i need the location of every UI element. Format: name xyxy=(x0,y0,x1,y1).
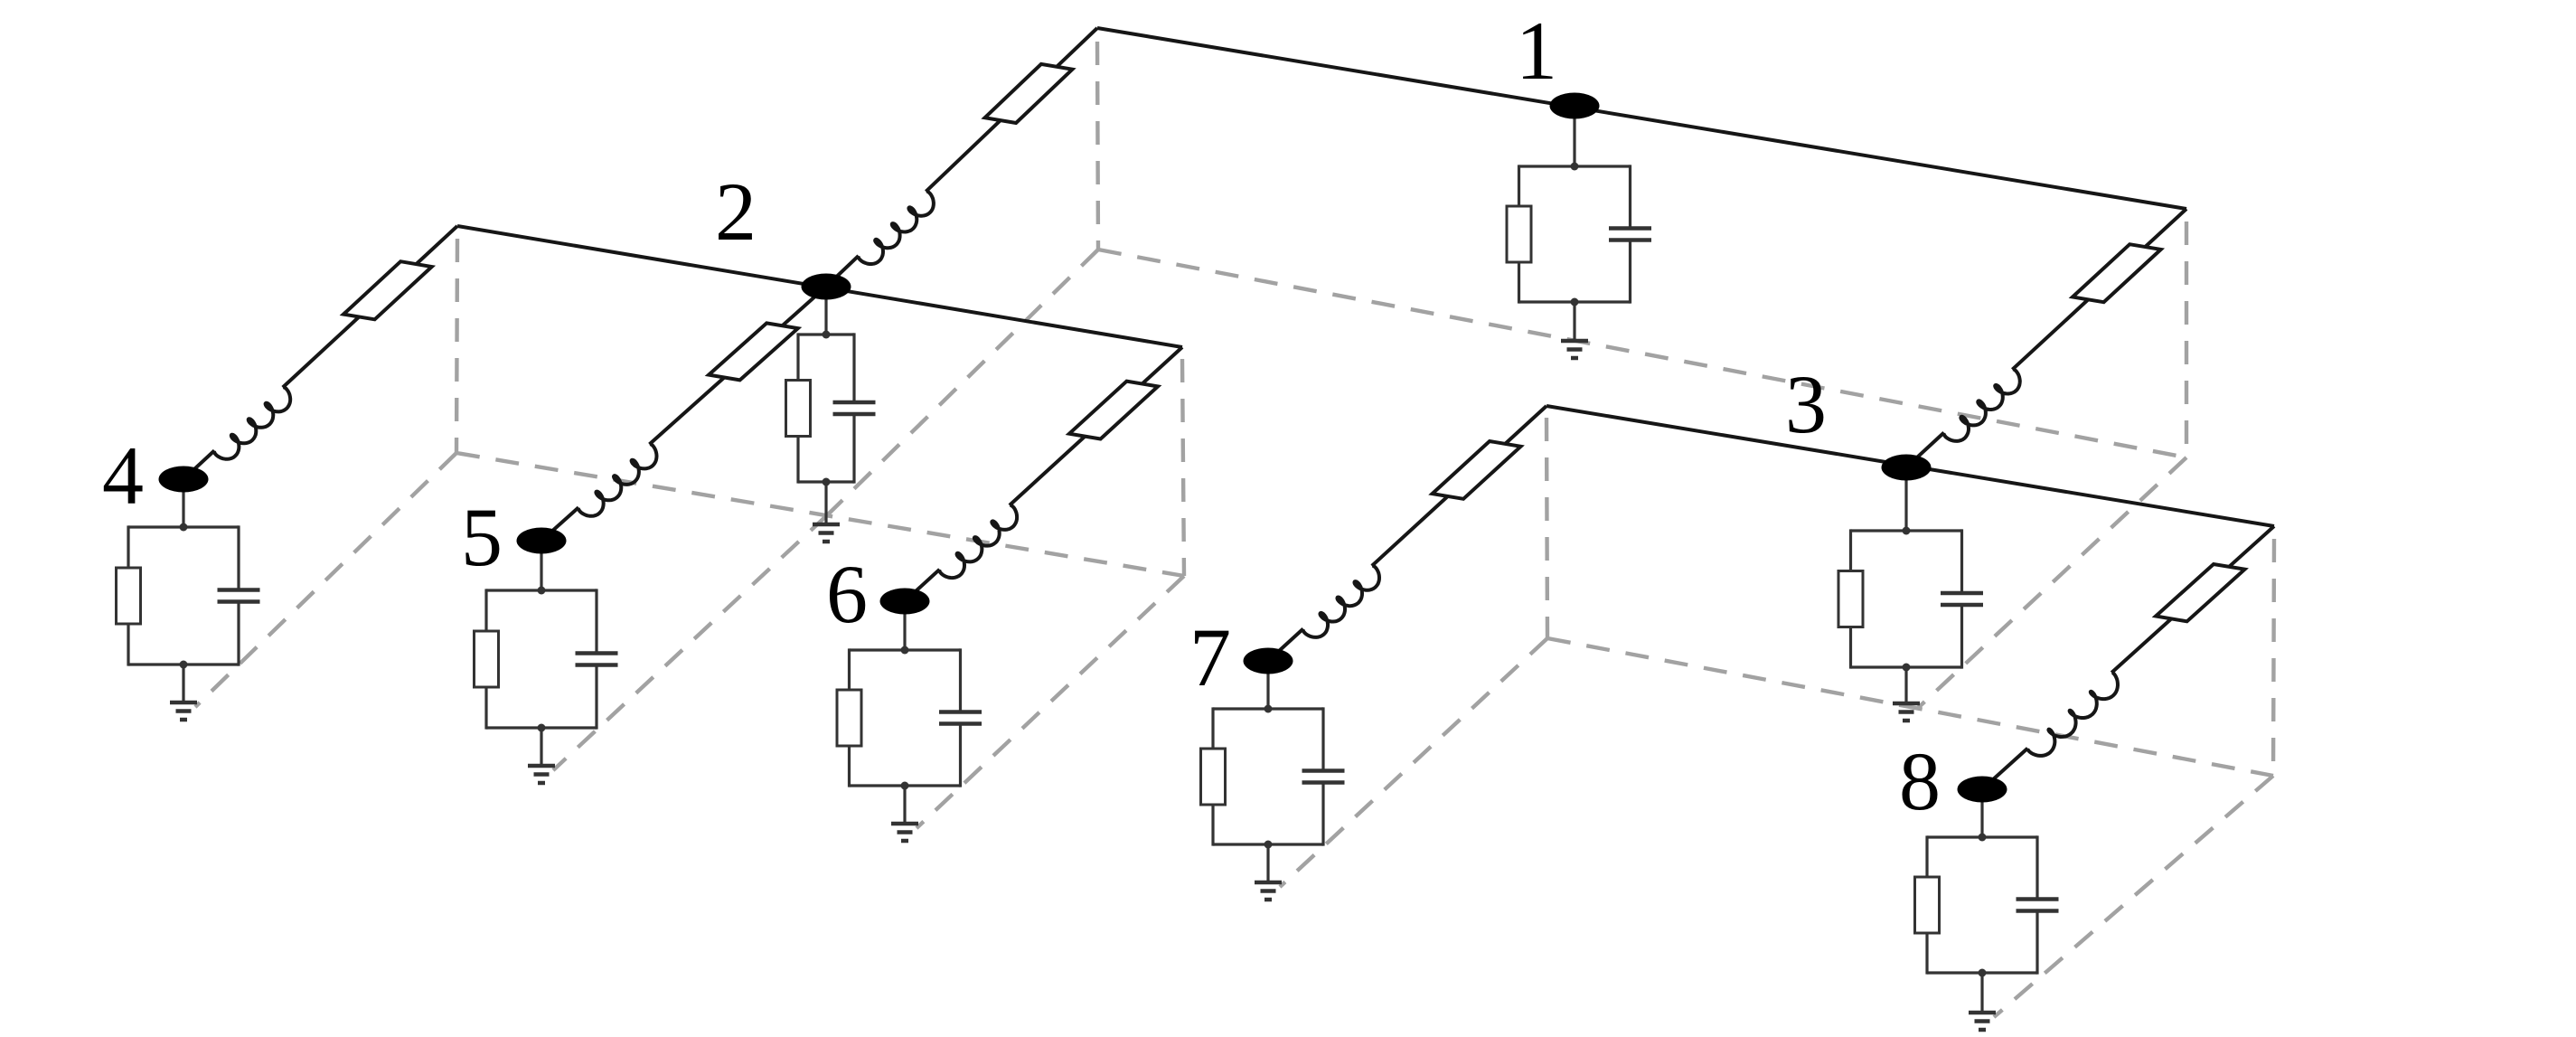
ground at node 3 xyxy=(1904,667,1907,703)
inductor on branch C-4 xyxy=(214,387,290,459)
ground at node 4 xyxy=(182,665,184,702)
dashed vertical projection line under corner D xyxy=(1182,359,1184,576)
junction dots node 5 xyxy=(538,587,546,595)
resistor R2 xyxy=(786,381,811,437)
wire bus through node 2 (C to D) xyxy=(457,226,1182,347)
wire branch D-6 xyxy=(1142,347,1182,384)
svg-text:8: 8 xyxy=(1899,735,1941,827)
dashed vertical projection line under corner C xyxy=(456,239,457,453)
ground at node 8 xyxy=(1980,973,1983,1013)
dashed ground-projection of branch to node 8 xyxy=(1994,776,2273,1017)
node 3 terminal dot xyxy=(1882,455,1932,481)
junction dots node 8 xyxy=(1979,834,1987,842)
wire branch F-8 xyxy=(2229,526,2274,567)
ground at node 2 xyxy=(824,482,827,524)
wire node 1 to RC box xyxy=(1573,106,1575,166)
svg-text:5: 5 xyxy=(461,491,503,583)
svg-text:7: 7 xyxy=(1189,611,1231,703)
node 7 terminal dot xyxy=(1244,648,1293,674)
RC box node 7 xyxy=(1213,707,1323,710)
capacitor C5 xyxy=(576,651,618,655)
inductor on branch D-6 xyxy=(939,505,1017,579)
capacitor C3 xyxy=(1941,591,1983,596)
junction dots node 1 xyxy=(1571,163,1579,171)
dashed ground-projection of branch to node 5 xyxy=(553,514,828,770)
dashed vertical projection line under corner E xyxy=(1547,418,1547,638)
inductor on branch B-3 xyxy=(1943,369,2019,441)
RC box node 8 xyxy=(1927,835,2037,838)
wire node 3 to RC box xyxy=(1904,467,1907,531)
wire node 8 to RC box xyxy=(1980,789,1983,837)
node 1 terminal dot xyxy=(1550,93,1600,119)
resistor R5 xyxy=(475,631,499,687)
inductor on branch F-8 xyxy=(2027,673,2118,756)
junction dots node 7 xyxy=(1264,705,1273,713)
junction dots node 3 xyxy=(1903,527,1911,535)
junction dots node 6 xyxy=(901,646,909,655)
wire node 2 to RC box xyxy=(824,287,827,335)
RC box node 3 xyxy=(1851,529,1962,532)
capacitor C2 xyxy=(833,401,876,405)
inductor on branch A-2 xyxy=(859,192,934,265)
resistor on branch N2-5 xyxy=(709,323,798,380)
wire branch C-4 xyxy=(417,226,458,264)
wire node 4 to RC box xyxy=(182,479,184,527)
capacitor C6 xyxy=(939,710,982,714)
dashed ground-projection of branch to node 3 xyxy=(1918,457,2186,708)
resistor on branch D-6 xyxy=(1069,382,1158,439)
RC box node 4 xyxy=(128,525,239,528)
wire bus through node 3 (E to F) xyxy=(1547,406,2274,526)
resistor R3 xyxy=(1838,571,1863,627)
wire branch B-3 xyxy=(2145,209,2186,247)
RC box node 6 xyxy=(850,648,961,651)
svg-text:1: 1 xyxy=(1516,5,1557,97)
ground at node 7 xyxy=(1266,844,1269,882)
wire branch N2-5 xyxy=(783,287,827,325)
svg-text:6: 6 xyxy=(826,548,868,640)
RC box node 1 xyxy=(1519,165,1631,167)
resistor on branch C-4 xyxy=(343,261,432,319)
resistor R4 xyxy=(117,568,141,624)
ground at node 5 xyxy=(540,728,542,766)
dashed ground-projection of bus A-B xyxy=(1098,250,2186,457)
inductor on branch N2-5 xyxy=(578,444,657,516)
svg-text:2: 2 xyxy=(715,165,757,258)
dashed ground-projection of branch to node 7 xyxy=(1280,638,1547,887)
resistor R1 xyxy=(1507,206,1531,262)
dashed vertical projection line under corner A xyxy=(1097,42,1098,250)
dashed ground-projection of branch A-2 xyxy=(828,250,1098,514)
resistor on branch B-3 xyxy=(2073,244,2161,302)
svg-text:3: 3 xyxy=(1785,358,1827,450)
wire branch A-2 xyxy=(1057,28,1097,67)
capacitor C8 xyxy=(2017,897,2059,901)
capacitor C4 xyxy=(218,588,260,592)
capacitor C7 xyxy=(1302,768,1345,773)
RC box node 5 xyxy=(486,589,597,591)
ground at node 6 xyxy=(903,786,906,824)
junction dots node 2 xyxy=(823,331,831,339)
node 8 terminal dot xyxy=(1958,777,2007,803)
dashed ground-projection of bus C-D xyxy=(456,453,1184,576)
resistor on branch A-2 xyxy=(985,64,1073,123)
inductor on branch E-7 xyxy=(1303,566,1380,637)
wire branch E-7 xyxy=(1505,406,1547,444)
svg-text:4: 4 xyxy=(102,429,144,522)
resistor R7 xyxy=(1201,749,1226,805)
wire node 7 to RC box xyxy=(1266,661,1269,709)
resistor on branch E-7 xyxy=(1433,441,1521,499)
node 2 terminal dot xyxy=(802,274,851,300)
resistor on branch F-8 xyxy=(2156,564,2244,621)
dashed ground-projection of bus E-F xyxy=(1547,638,2273,776)
wire node 6 to RC box xyxy=(903,601,906,650)
dashed vertical projection line under corner F xyxy=(2273,539,2274,776)
wire bus through node 1 (A to B) xyxy=(1097,28,2186,209)
node 4 terminal dot xyxy=(159,467,209,493)
resistor R8 xyxy=(1915,877,1940,933)
dashed ground-projection of branch to node 4 xyxy=(195,453,456,707)
dashed ground-projection of branch to node 6 xyxy=(917,576,1184,828)
dashed vertical projection line under corner B xyxy=(2185,222,2188,457)
node 6 terminal dot xyxy=(880,589,930,615)
wire node 5 to RC box xyxy=(540,541,542,590)
ground at node 1 xyxy=(1573,302,1575,341)
capacitor C1 xyxy=(1609,226,1651,231)
node 5 terminal dot xyxy=(517,528,567,554)
RC box node 2 xyxy=(798,333,854,335)
resistor R6 xyxy=(837,690,861,746)
junction dots node 4 xyxy=(180,523,188,532)
